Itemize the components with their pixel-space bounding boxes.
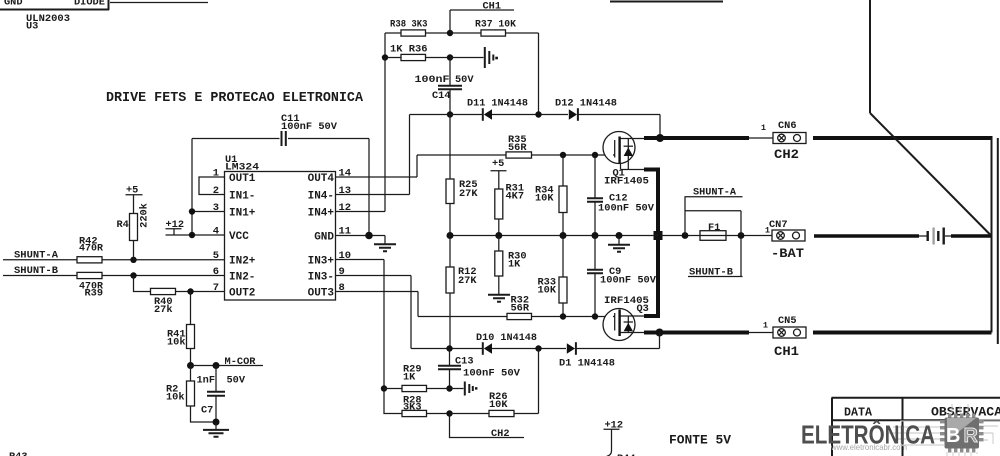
resistor R38 3K3	[385, 19, 450, 37]
node pin3/C11 junction	[189, 208, 195, 214]
resistor R32 56R	[507, 295, 532, 320]
svg-text:DATA: DATA	[844, 407, 872, 420]
node F1 left junction	[682, 232, 689, 239]
svg-text:12: 12	[339, 202, 352, 214]
svg-text:GND: GND	[314, 232, 334, 244]
wire pin 9 down to diode row 2	[410, 276, 412, 349]
ground (R30)	[488, 295, 510, 302]
logo watermark ELETRONICA BR	[801, 404, 1000, 456]
svg-text:IN1+: IN1+	[229, 208, 256, 220]
wire battery to right edge	[951, 234, 992, 237]
ground (source rail)	[608, 236, 630, 252]
svg-text:IN1-: IN1-	[229, 191, 255, 203]
node R40/pin7 junction	[187, 288, 193, 294]
svg-text:CH1: CH1	[483, 1, 502, 13]
svg-text:1: 1	[213, 168, 219, 180]
svg-text:Q3: Q3	[637, 303, 649, 315]
node C13 top junction	[446, 345, 452, 351]
svg-text:1: 1	[763, 321, 768, 331]
sideways ground (R36 row)	[450, 47, 498, 68]
svg-text:R4: R4	[117, 219, 129, 231]
node rail R31/R30	[495, 232, 502, 239]
svg-text:1K: 1K	[508, 259, 521, 271]
svg-text:D1 1N4148: D1 1N4148	[559, 358, 615, 370]
wire M-COR row	[191, 365, 264, 367]
svg-text:27K: 27K	[458, 275, 477, 287]
wire SHUNT-A to F1 left	[684, 197, 686, 236]
svg-text:2: 2	[213, 185, 219, 197]
transistor Q1 IRF1405	[603, 132, 649, 188]
capacitor C13	[438, 349, 521, 389]
node rail R25/R12	[447, 232, 454, 239]
node R28/R26 junction	[446, 410, 452, 416]
node R29 right junction	[446, 385, 452, 391]
wire Q1 source thick down to Q3 drain	[644, 168, 660, 317]
transistor Q3 IRF1405	[603, 295, 649, 341]
wire source rail	[450, 235, 658, 237]
svg-text:+5: +5	[492, 158, 504, 170]
IC U3 ULN2003 box (cropped at top)	[0, 0, 109, 33]
resistor R2	[166, 366, 216, 423]
node pin4/C11 junction	[189, 232, 195, 238]
wire pin 13	[336, 194, 410, 196]
wire pin 8 down to R32 row	[417, 292, 419, 317]
svg-text:OUT4: OUT4	[308, 173, 335, 185]
svg-text:100nF 50V: 100nF 50V	[463, 368, 521, 380]
capacitor C7	[197, 366, 246, 423]
svg-text:100nF 50V: 100nF 50V	[598, 203, 655, 215]
svg-text:CH2: CH2	[491, 428, 510, 440]
wire CH1 thick row right	[813, 331, 992, 335]
wire pin1-pin2 feedback loop	[199, 177, 225, 195]
node R33 bottom junction	[560, 313, 566, 319]
power flag +12 (bottom)	[604, 420, 624, 456]
wire CH1 stub	[450, 10, 514, 33]
svg-text:-BAT: -BAT	[771, 246, 804, 261]
resistor R36 1K	[385, 44, 450, 61]
node thick -BAT junction	[654, 231, 663, 240]
svg-text:OBSERVACAO: OBSERVACAO	[931, 406, 1000, 420]
wire CH2 thick row right	[813, 136, 993, 140]
wire R40 junction down to R41	[190, 292, 192, 325]
wire R37 right down to diode row	[538, 33, 540, 115]
node M-COR junction left	[187, 362, 194, 369]
svg-text:100nF 50V: 100nF 50V	[600, 275, 657, 287]
svg-text:IRF1405: IRF1405	[604, 176, 649, 188]
svg-text:D12 1N4148: D12 1N4148	[555, 98, 617, 110]
wire pin 10 down to R29	[383, 260, 385, 389]
svg-text:OUT1: OUT1	[229, 173, 256, 185]
net label SHUNT-B (F1)	[688, 267, 743, 279]
svg-text:IN3-: IN3-	[308, 272, 334, 284]
wire R35 row	[417, 154, 613, 156]
wire pin 11 GND	[336, 235, 386, 237]
svg-text:1: 1	[761, 123, 766, 133]
svg-text:8: 8	[339, 282, 345, 294]
wire C11 right to pin 11	[368, 139, 370, 236]
node D10/D1 junction	[535, 345, 541, 351]
wire pin 14 up to R35 row	[416, 155, 418, 177]
resistor R26 10K	[450, 349, 539, 417]
svg-text:www.eletronicabr.com: www.eletronicabr.com	[830, 442, 907, 452]
resistor R4 220k	[117, 203, 151, 260]
node C14 top junction	[447, 30, 453, 36]
svg-text:14: 14	[339, 168, 352, 180]
svg-text:IN4-: IN4-	[308, 191, 334, 203]
wire pin 9	[336, 275, 412, 277]
battery	[919, 228, 951, 245]
wire pin 13 up to diode row	[409, 115, 411, 195]
svg-text:R38 3K3: R38 3K3	[390, 19, 428, 31]
wire F1 bracket	[685, 211, 741, 236]
svg-text:DIODE: DIODE	[74, 0, 105, 9]
net label SHUNT-A (F1)	[685, 187, 743, 199]
wire diagonal	[870, 113, 992, 236]
wire pin 10	[336, 259, 385, 261]
resistor R35 56R	[506, 134, 532, 158]
svg-text:50V: 50V	[455, 74, 474, 86]
wire R32 row	[418, 316, 613, 318]
power flag +5 (left)	[126, 185, 143, 214]
connector CN5	[749, 315, 806, 338]
svg-text:220k: 220k	[139, 203, 151, 228]
capacitor C9	[587, 236, 657, 317]
svg-text:C14: C14	[432, 90, 451, 102]
svg-text:9: 9	[339, 266, 345, 278]
svg-text:IN4+: IN4+	[308, 208, 335, 220]
svg-text:13: 13	[339, 185, 352, 197]
svg-text:CN5: CN5	[778, 315, 797, 327]
svg-text:27k: 27k	[154, 304, 173, 316]
wire right edge vertical V2	[997, 138, 999, 344]
node D11/D12 junction	[535, 111, 541, 117]
svg-text:B: B	[946, 425, 960, 447]
svg-text:IN3+: IN3+	[308, 256, 335, 268]
node R36 left junction	[382, 54, 388, 60]
node R36 right junction	[447, 54, 453, 60]
node Q3 source junction	[656, 329, 664, 337]
svg-text:CH1: CH1	[774, 344, 799, 359]
svg-text:R37 10K: R37 10K	[475, 19, 517, 31]
wire pin 4 VCC	[166, 234, 225, 236]
capacitor C14	[415, 58, 475, 115]
svg-text:50V: 50V	[227, 375, 246, 387]
node C12 top junction	[592, 152, 598, 158]
svg-text:27K: 27K	[459, 188, 478, 200]
svg-text:D10 1N4148: D10 1N4148	[476, 332, 537, 344]
resistor R37 10K	[450, 19, 539, 37]
wire CH2 stub	[450, 414, 525, 438]
svg-text:10: 10	[339, 250, 352, 262]
node R34 top junction	[560, 152, 566, 158]
node F1 right junction	[738, 232, 745, 239]
connector CN7	[765, 219, 805, 241]
resistor R31 4K7	[495, 183, 524, 236]
resistor R25 27K	[446, 115, 478, 236]
svg-text:1: 1	[765, 226, 770, 236]
diode D11 1N4148	[467, 98, 528, 121]
svg-text:10K: 10K	[538, 285, 557, 297]
svg-text:10K: 10K	[535, 193, 554, 205]
svg-text:4K7: 4K7	[506, 191, 525, 203]
svg-text:VCC: VCC	[229, 231, 249, 243]
wire from U3 box	[110, 2, 208, 4]
node Q1 drain junction	[656, 134, 664, 142]
svg-text:IN2+: IN2+	[229, 256, 256, 268]
resistor R33 10K	[538, 236, 568, 317]
wire SHUNT-A row to pin 5	[3, 259, 225, 261]
node C7 bottom junction	[213, 419, 220, 426]
svg-text:R39: R39	[85, 288, 104, 300]
svg-text:1K: 1K	[403, 372, 416, 384]
node R29 left junction	[381, 385, 387, 391]
resistor R41	[167, 325, 195, 366]
svg-text:CN7: CN7	[769, 219, 788, 231]
node C9 bottom junction	[592, 313, 598, 319]
node rail C12/C9	[592, 232, 599, 239]
svg-text:R: R	[964, 425, 979, 447]
svg-text:56R: 56R	[511, 303, 530, 315]
svg-text:FONTE 5V: FONTE 5V	[669, 433, 731, 448]
svg-text:U3: U3	[26, 21, 38, 33]
svg-text:OUT3: OUT3	[308, 288, 335, 300]
op-amp U1 LM324	[225, 154, 336, 300]
wire F1 right to SHUNT-B	[740, 236, 742, 277]
ground (C7)	[203, 422, 229, 437]
resistor R30 1K	[495, 236, 527, 295]
node rail R34/R33	[560, 232, 567, 239]
sideways ground (R29 row)	[450, 382, 478, 396]
wire D12 right down to Q1 drain	[659, 115, 661, 138]
svg-text:3: 3	[213, 202, 219, 214]
svg-text:DRIVE FETS E PROTECAO ELETRONI: DRIVE FETS E PROTECAO ELETRONICA	[106, 91, 364, 106]
wire Q1 drain thick	[644, 136, 749, 140]
svg-text:CH2: CH2	[774, 147, 799, 162]
node C7 top junction	[213, 362, 220, 369]
svg-text:100nF: 100nF	[415, 74, 450, 86]
node R4/SHUNT-A junction	[130, 257, 136, 263]
wire R38 left down to R36	[384, 33, 386, 58]
diode D1 1N4148	[559, 342, 615, 369]
diode D10 1N4148	[476, 332, 537, 355]
svg-text:10k: 10k	[166, 392, 185, 404]
resistor R29 1K	[384, 364, 450, 392]
svg-text:D11 1N4148: D11 1N4148	[467, 98, 528, 110]
wire top-right partial	[610, 1, 723, 3]
wire pin 3	[191, 211, 225, 213]
svg-text:OUT2: OUT2	[229, 288, 255, 300]
wire pin 14	[336, 176, 418, 178]
wire pin 8	[336, 291, 419, 293]
svg-text:IN2-: IN2-	[229, 272, 255, 284]
wire C11 left to pins 3,4	[191, 139, 193, 236]
diode D12 1N4148	[555, 98, 617, 121]
svg-text:CN6: CN6	[778, 120, 797, 132]
wire SHUNT-B row to pin 6	[3, 275, 225, 277]
wire vertical top right	[869, 0, 871, 113]
resistor R12 27K	[446, 236, 477, 349]
svg-text:100nF 50V: 100nF 50V	[281, 121, 338, 133]
svg-text:7: 7	[213, 282, 219, 294]
svg-text:M-COR: M-COR	[225, 356, 257, 368]
wire Q3 source thick	[644, 331, 749, 335]
wire pin 12	[336, 211, 386, 213]
resistor R39	[77, 272, 104, 299]
ground (pin 11)	[374, 236, 396, 252]
wire R40 left leg	[134, 276, 151, 292]
power flag +5 (middle)	[491, 158, 507, 189]
wire R36 left column down to pin 12	[384, 58, 386, 212]
svg-text:R43: R43	[9, 451, 28, 456]
node SHUNT-B/R40 junction	[130, 272, 136, 278]
svg-text:4: 4	[213, 226, 219, 238]
fuse F1	[700, 222, 726, 240]
wire right edge vertical V1	[991, 138, 993, 333]
svg-text:C7: C7	[201, 405, 213, 417]
svg-text:6: 6	[213, 266, 219, 278]
node rail ground tap	[616, 232, 623, 239]
capacitor C11	[192, 113, 369, 146]
node diode row C14 junction	[447, 111, 453, 117]
svg-text:10K: 10K	[489, 399, 508, 411]
svg-text:1K R36: 1K R36	[390, 44, 428, 56]
svg-text:10k: 10k	[167, 337, 186, 349]
svg-text:GND: GND	[4, 0, 23, 9]
wire diode row 2	[411, 333, 660, 349]
resistor R34 10K	[535, 155, 567, 236]
table frame	[832, 398, 1000, 456]
resistor R40	[151, 288, 225, 316]
node pin11/C11 junction	[365, 232, 373, 240]
svg-text:1nF: 1nF	[197, 375, 216, 387]
wire -BAT row left	[661, 235, 772, 237]
power flag +12 (VCC)	[166, 219, 185, 235]
wire -BAT thick row	[814, 234, 919, 237]
wire diode row 1	[410, 114, 661, 116]
capacitor C12	[587, 155, 655, 236]
svg-text:470R: 470R	[79, 243, 104, 255]
resistor R28 3K3	[384, 389, 450, 417]
connector CN6	[749, 120, 806, 144]
resistor R42	[77, 236, 104, 263]
